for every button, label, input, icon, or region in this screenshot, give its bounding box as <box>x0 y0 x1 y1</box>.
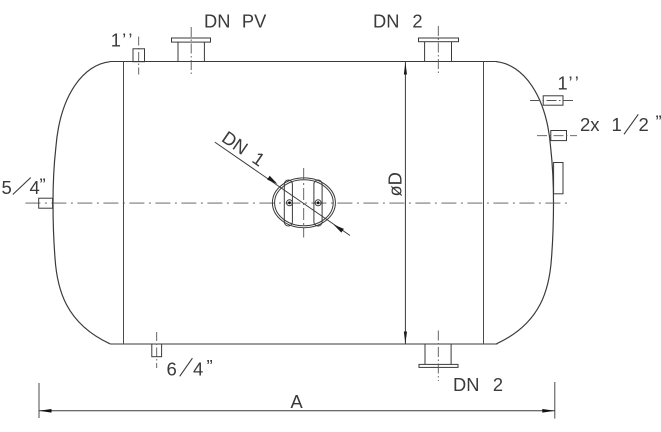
manhole outer oval <box>272 178 335 228</box>
svg-text:øD: øD <box>385 172 406 196</box>
manhole left strap <box>284 180 292 226</box>
nozzle DN 2 bottom: neck <box>425 344 451 364</box>
leader DN 1 arrow lower-right <box>334 225 344 233</box>
dimension A extension line right <box>554 382 556 419</box>
nozzle DN 2 top: neck <box>425 42 452 62</box>
label øD (rotated) <box>385 172 406 196</box>
nozzle 2x 1/2" right side: centerline <box>537 135 577 137</box>
manhole left bolt <box>287 200 293 206</box>
dimension A arrow right <box>542 409 555 413</box>
left tangent weld line <box>123 62 125 345</box>
dimension øD arrow up <box>404 62 407 75</box>
svg-text:1’’: 1’’ <box>558 73 582 94</box>
leader DN 1 arrow upper-left <box>267 176 277 184</box>
manhole right bolt <box>315 200 321 206</box>
nozzle 1" top-left: centerline <box>138 37 140 75</box>
nozzle DN 2 top: flange plate <box>419 38 459 42</box>
vessel shell bottom line <box>110 343 498 345</box>
right tangent weld line <box>483 62 485 345</box>
nozzle 6/4" bottom: centerline <box>156 332 158 368</box>
nozzle DN PV: neck <box>178 42 204 61</box>
nozzle 5/4" left: body <box>39 198 53 208</box>
manhole right strap <box>314 180 322 226</box>
label 1" (top-left) <box>111 29 135 50</box>
nozzle 1" right side: centerline <box>530 100 576 102</box>
label 5/4" <box>2 175 46 198</box>
nozzle DN PV: flange plate <box>172 38 211 42</box>
label A <box>291 391 304 412</box>
nozzle DN 2 bottom: flange plate <box>419 364 458 367</box>
dimension øD line <box>404 62 406 344</box>
label 1" (right) <box>558 73 582 94</box>
nozzle 1" top-left: body <box>133 49 145 62</box>
left dished head <box>53 62 110 344</box>
pad plate on right head <box>554 163 563 194</box>
right dished head <box>497 62 554 344</box>
nozzle DN 2 bottom: centerline <box>437 331 439 382</box>
dimension A arrow left <box>39 409 52 413</box>
label 6/4" <box>167 356 213 379</box>
manhole vertical centerline <box>303 168 305 238</box>
svg-text:A: A <box>291 391 304 412</box>
nozzle 6/4" bottom: body <box>152 344 162 357</box>
manhole inner oval <box>275 180 334 226</box>
leader DN 1 diagonal line <box>215 142 350 235</box>
dimension A extension line left <box>38 383 40 418</box>
nozzle 1" right side: body <box>543 96 563 105</box>
label DN 1 (rotated) <box>218 126 269 170</box>
nozzle 2x 1/2" right side: body <box>551 131 567 141</box>
label DN 2 (top) <box>373 10 423 31</box>
main horizontal centerline <box>25 202 569 204</box>
label DN PV <box>204 10 267 31</box>
svg-text:DN2: DN2 <box>453 374 503 395</box>
nozzle DN 2 top: centerline <box>437 26 439 75</box>
dimension A line <box>39 410 555 412</box>
nozzle DN PV: centerline <box>190 27 192 75</box>
svg-text:DN2: DN2 <box>373 10 423 31</box>
vessel shell top line <box>110 61 498 63</box>
dimension øD arrow down <box>404 332 407 345</box>
svg-text:1’’: 1’’ <box>111 29 135 50</box>
label 2x 1/2" <box>580 112 661 135</box>
label DN 2 (bottom) <box>453 374 503 395</box>
